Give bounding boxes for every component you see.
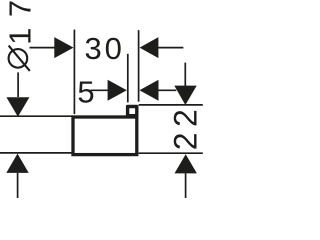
svg-text:30: 30 [85,31,125,66]
svg-text:7: 7 [2,0,37,17]
svg-text:2: 2 [168,109,204,127]
svg-text:2: 2 [168,133,204,151]
svg-text:1: 1 [2,28,37,45]
svg-text:5: 5 [77,75,94,110]
